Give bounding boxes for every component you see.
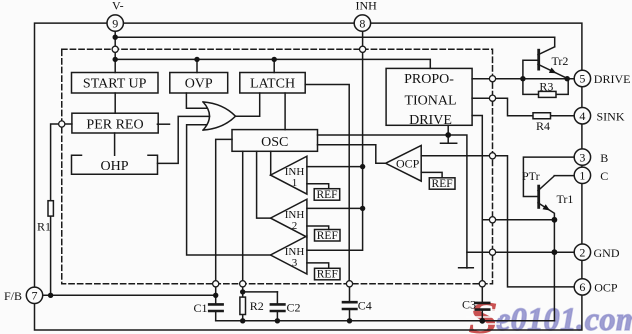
svg-text:SINK: SINK <box>597 110 625 124</box>
svg-text:REF: REF <box>317 269 338 281</box>
svg-text:1: 1 <box>292 177 298 189</box>
svg-text:8: 8 <box>359 16 365 30</box>
svg-text:R4: R4 <box>536 119 550 133</box>
svg-text:LATCH: LATCH <box>250 77 295 92</box>
svg-text:C3: C3 <box>462 297 476 311</box>
svg-text:START UP: START UP <box>83 77 147 92</box>
svg-text:Tr2: Tr2 <box>552 54 569 68</box>
svg-text:R1: R1 <box>37 220 51 234</box>
svg-text:V-: V- <box>112 0 124 13</box>
svg-text:OHP: OHP <box>100 159 128 174</box>
svg-text:R3: R3 <box>539 79 553 93</box>
svg-text:6: 6 <box>579 280 585 294</box>
svg-text:REF: REF <box>316 189 337 201</box>
svg-text:4: 4 <box>579 109 585 123</box>
svg-text:OCP: OCP <box>396 156 420 170</box>
svg-text:2: 2 <box>579 245 585 259</box>
svg-text:OCP: OCP <box>594 281 618 295</box>
svg-text:DRIVE: DRIVE <box>409 113 452 128</box>
svg-text:C: C <box>600 169 608 183</box>
svg-text:PER REO: PER REO <box>86 117 143 132</box>
svg-text:B: B <box>600 151 608 165</box>
svg-text:5: 5 <box>579 72 585 86</box>
svg-text:R2: R2 <box>250 299 264 313</box>
svg-text:REF: REF <box>432 178 453 190</box>
svg-text:PTr: PTr <box>522 169 540 183</box>
svg-text:GND: GND <box>594 246 620 260</box>
svg-text:F/B: F/B <box>4 289 22 303</box>
svg-text:OSC: OSC <box>261 135 288 150</box>
svg-text:C2: C2 <box>287 301 301 315</box>
svg-text:C4: C4 <box>358 298 372 312</box>
svg-text:TIONAL: TIONAL <box>404 94 456 109</box>
svg-text:9: 9 <box>112 16 118 30</box>
svg-text:DRIVE: DRIVE <box>594 72 631 86</box>
svg-text:1: 1 <box>579 169 585 183</box>
svg-text:OVP: OVP <box>185 77 213 92</box>
svg-text:3: 3 <box>292 257 298 269</box>
svg-text:2: 2 <box>292 220 298 232</box>
svg-text:Tr1: Tr1 <box>557 192 574 206</box>
svg-text:INH: INH <box>356 0 378 13</box>
svg-text:PROPO-: PROPO- <box>404 72 454 87</box>
svg-text:e0101.com: e0101.com <box>496 302 632 334</box>
svg-text:3: 3 <box>579 150 585 164</box>
svg-text:C1: C1 <box>194 301 208 315</box>
svg-text:7: 7 <box>32 289 38 303</box>
svg-text:REF: REF <box>317 230 338 242</box>
